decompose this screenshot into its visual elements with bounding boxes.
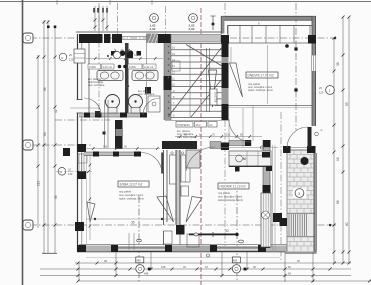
grid bubble top 1 bbox=[150, 14, 159, 23]
room2 dim line bbox=[86, 218, 178, 220]
bottom dim line 1 bbox=[75, 262, 351, 264]
right ticks bbox=[333, 16, 351, 254]
hall label box bbox=[218, 183, 249, 189]
grid square A left bottom bbox=[23, 220, 33, 230]
svg-text:15x17/28: 15x17/28 bbox=[214, 92, 218, 103]
bath dim row bbox=[86, 58, 163, 60]
paper top border bbox=[0, 1, 371, 3]
svg-text:cem. kosuljica / armir: cem. kosuljica / armir bbox=[119, 193, 143, 197]
top wall black segment C bbox=[112, 34, 122, 43]
axis horizontal y=145 bbox=[30, 144, 92, 146]
upper room bottom wall line bbox=[215, 105, 312, 107]
axis ticks x296 bbox=[294, 88, 297, 91]
paper top ticks bbox=[56, 0, 58, 5]
left dim line 4 bbox=[54, 28, 56, 253]
right dim line 2 bbox=[342, 17, 344, 263]
bottom wall inner line bbox=[79, 244, 287, 246]
svg-text:488: 488 bbox=[136, 258, 141, 262]
svg-text:1: 1 bbox=[329, 89, 331, 93]
stair break line 3 bbox=[191, 79, 222, 117]
door arc hall south bbox=[229, 120, 252, 143]
door kite right bbox=[186, 197, 202, 223]
right wall upper bbox=[312, 17, 316, 56]
bottom wall grey seg 3 bbox=[266, 246, 287, 252]
terrace right edge bbox=[313, 153, 315, 253]
left wall bbox=[77, 34, 79, 251]
interior pier bottom bbox=[176, 225, 185, 235]
bottom axis bubble 2 bbox=[232, 265, 240, 273]
terrace brick paving bbox=[287, 150, 315, 253]
hall top wall black bbox=[162, 141, 197, 149]
shower tray bbox=[148, 96, 160, 112]
bathroom label boxes row bbox=[88, 64, 101, 69]
terrace black corner ne bbox=[307, 146, 316, 153]
corridor pier 1 bbox=[93, 152, 99, 157]
bottom wall black jamb 2 bbox=[165, 245, 172, 252]
bottom dim line 3 bbox=[40, 275, 351, 277]
stair text box vertical bbox=[210, 89, 217, 105]
bottom wall outer line bbox=[77, 251, 316, 253]
bath wall pier 2 bbox=[120, 113, 127, 118]
hall west wall lines bbox=[176, 150, 180, 225]
top wall outer line bbox=[76, 31, 221, 33]
axis vertical x=117 bbox=[117, 3, 119, 36]
door leaf living room bbox=[161, 153, 163, 174]
svg-text:100: 100 bbox=[134, 53, 139, 57]
small circle bottom bbox=[207, 254, 210, 257]
svg-text:38: 38 bbox=[336, 62, 340, 66]
bathroom divider wall bbox=[125, 43, 129, 116]
axis horizontal y=225 bbox=[30, 224, 336, 226]
wall stubs to bottom bbox=[163, 231, 165, 245]
svg-text:15.2: 15.2 bbox=[196, 123, 202, 127]
svg-text:cem. kosuljica: cem. kosuljica bbox=[138, 92, 155, 96]
svg-text:moj parket: moj parket bbox=[218, 191, 230, 195]
hall top wall grey seg bbox=[210, 142, 221, 149]
kitchen counter bbox=[229, 151, 271, 167]
pier black upper room right bbox=[308, 35, 316, 44]
svg-text:86: 86 bbox=[43, 132, 47, 136]
stair treads bbox=[171, 44, 222, 118]
toilet left bbox=[106, 95, 120, 109]
svg-text:E: E bbox=[62, 56, 64, 60]
entry door gap bbox=[76, 100, 83, 114]
black square ticks top-left bbox=[47, 26, 50, 29]
right inner wall black top bbox=[263, 140, 271, 147]
door arc living room bbox=[141, 153, 162, 174]
right inner wall black mid bbox=[263, 185, 271, 193]
right wall mid bbox=[312, 71, 316, 126]
svg-text:80: 80 bbox=[345, 222, 349, 226]
left dim line 1 bbox=[37, 55, 39, 228]
axis horizontal y=120 entry bbox=[55, 119, 110, 121]
top wall black segment A bbox=[79, 34, 103, 43]
landing line bbox=[165, 120, 229, 122]
bathroom bottom wall bbox=[79, 113, 147, 117]
svg-text:3,02: 3,02 bbox=[189, 27, 195, 31]
svg-text:SOBA 12.07 m2: SOBA 12.07 m2 bbox=[120, 183, 143, 187]
kitchen sink bbox=[236, 155, 243, 162]
left ticks bbox=[37, 21, 57, 227]
grid bubble top 2 bbox=[189, 14, 198, 23]
boxed 488 label 1 bbox=[136, 257, 144, 263]
svg-text:120: 120 bbox=[68, 172, 73, 176]
top wall black segment B bbox=[104, 34, 111, 43]
stair walking line bbox=[189, 44, 191, 118]
hall dim line bbox=[175, 136, 262, 138]
axis vertical x=99 bbox=[98, 3, 100, 118]
pier black upper room left bbox=[221, 35, 229, 44]
kitchen stove black bbox=[262, 152, 270, 158]
svg-text:488: 488 bbox=[233, 258, 238, 262]
bath wall pier 3 bbox=[140, 113, 147, 118]
svg-text:120: 120 bbox=[69, 58, 74, 62]
axis vertical x=237 bbox=[236, 182, 238, 282]
washbasin counter left bbox=[97, 71, 123, 81]
living room label box bbox=[246, 72, 278, 78]
upper room dim vertical bbox=[267, 45, 269, 104]
bottom dim line 4 bbox=[78, 280, 371, 282]
bottom wall black jamb 1 bbox=[111, 245, 118, 252]
svg-text:110: 110 bbox=[226, 133, 231, 137]
interior wall x165 stair side bbox=[164, 43, 171, 120]
bubble 1 right bbox=[326, 86, 335, 95]
shaft boxes bbox=[170, 155, 177, 184]
top wall window glazing bbox=[122, 36, 146, 38]
svg-text:88: 88 bbox=[43, 87, 47, 91]
bottom window 1 bbox=[118, 246, 165, 251]
svg-text:DNEVNI 17.07 m2: DNEVNI 17.07 m2 bbox=[248, 74, 274, 78]
upper room top wall bbox=[221, 17, 316, 20]
paper left edge bbox=[22, 0, 24, 285]
bottom wall black jamb 4 bbox=[258, 245, 266, 252]
svg-text:KUPA: KUPA bbox=[129, 65, 136, 69]
svg-text:toplot. izolacija / armir: toplot. izolacija / armir bbox=[119, 197, 144, 201]
svg-text:120: 120 bbox=[319, 91, 324, 95]
axis vertical x=225 bbox=[224, 3, 226, 17]
terrace bottom band bbox=[285, 252, 317, 255]
svg-text:168: 168 bbox=[161, 265, 166, 269]
bubble E2 window bbox=[58, 168, 66, 176]
svg-text:moj parket: moj parket bbox=[119, 190, 131, 194]
terrace bubble 3 bbox=[293, 188, 306, 198]
boiler black bbox=[145, 87, 151, 94]
grid square D left top bbox=[23, 33, 33, 43]
right dim line 1 bbox=[333, 38, 335, 263]
svg-text:42: 42 bbox=[54, 109, 58, 113]
left wall window 1 bbox=[74, 49, 85, 63]
bubble E window bbox=[59, 53, 67, 61]
grid square C left mid bbox=[23, 140, 33, 150]
bath wall pier 1 bbox=[84, 113, 90, 118]
svg-text:toplot. izolacija / armir: toplot. izolacija / armir bbox=[248, 88, 273, 92]
terrace exterior stair hatch bbox=[287, 214, 315, 237]
porch column bbox=[63, 148, 70, 156]
svg-text:488: 488 bbox=[144, 271, 149, 275]
closet row upper room bbox=[228, 26, 310, 44]
stair tread numbers bbox=[172, 46, 175, 118]
terrace column dot bbox=[301, 157, 309, 165]
svg-text:35: 35 bbox=[131, 221, 135, 225]
stair arrow triangle bbox=[209, 70, 217, 107]
right inner wall bbox=[263, 140, 270, 186]
bottom wall grey seg 2 bbox=[172, 246, 210, 252]
bottom wall grey seg 1 bbox=[86, 246, 111, 252]
door arc right wall bbox=[287, 127, 308, 148]
top wall black segment D bbox=[158, 34, 171, 43]
axis vertical x=281 bbox=[280, 112, 282, 262]
axis vertical x=296 bbox=[295, 3, 297, 130]
axis vertical x=139 bbox=[138, 196, 140, 282]
svg-text:86: 86 bbox=[336, 200, 340, 204]
upper room inner corner lines bbox=[228, 26, 314, 35]
boxed 488 label 2 bbox=[232, 257, 240, 263]
svg-text:85: 85 bbox=[345, 102, 349, 106]
kitchen wall pier black bbox=[245, 140, 251, 146]
niche rect left bbox=[164, 231, 173, 244]
svg-text:m2: m2 bbox=[209, 123, 213, 127]
bottom window 2 bbox=[217, 246, 258, 251]
svg-text:165: 165 bbox=[103, 145, 108, 149]
svg-text:2,62: 2,62 bbox=[150, 27, 156, 31]
right inner wall black bottom bbox=[263, 240, 271, 248]
svg-text:toplot. izolacija / armir: toplot. izolacija / armir bbox=[218, 198, 243, 202]
left dim line 3 bbox=[47, 20, 49, 253]
entry frame lines bbox=[104, 100, 106, 148]
black dot upper room bbox=[285, 44, 289, 48]
door kite left bbox=[157, 196, 174, 222]
svg-text:4.60 m2: 4.60 m2 bbox=[103, 65, 113, 69]
terrace black corner nw bbox=[283, 146, 291, 153]
bottom dim verticals bbox=[78, 263, 80, 281]
bedroom dim row bbox=[86, 148, 160, 150]
kitchen wall stub bbox=[229, 141, 251, 146]
terrace door lines bbox=[291, 147, 308, 149]
svg-text:cem. kosuljica / armir: cem. kosuljica / armir bbox=[218, 195, 242, 199]
washbasin counter right bbox=[132, 71, 158, 81]
tread end dots bbox=[168, 46, 170, 115]
partition lines bbox=[128, 233, 130, 250]
bedroom wall lines bbox=[163, 150, 165, 225]
terrace pier black bbox=[280, 218, 288, 226]
dim tick x213 bbox=[212, 16, 214, 30]
svg-text:M: M bbox=[243, 157, 246, 161]
section line red bbox=[200, 8, 202, 285]
left wall window 2 bbox=[78, 153, 80, 171]
top wall hatched pier bbox=[146, 34, 158, 44]
kitchen counter left bbox=[186, 150, 200, 168]
svg-text:18: 18 bbox=[336, 157, 340, 161]
svg-text:KUPA: KUPA bbox=[89, 65, 96, 69]
hall dim ticks bbox=[94, 57, 251, 138]
bedroom dim vertical bbox=[89, 156, 91, 240]
terrace threshold lines bbox=[272, 145, 274, 252]
left dim line 2 bbox=[43, 20, 45, 253]
right wall window bbox=[311, 55, 313, 71]
bottom axis bubble 1 bbox=[136, 265, 144, 273]
svg-text:4.40 m2: 4.40 m2 bbox=[144, 65, 154, 69]
door bubble 20/100 bbox=[113, 51, 120, 58]
bottom wall black jamb 3 bbox=[210, 245, 217, 252]
beam lintel black bbox=[189, 234, 238, 236]
svg-text:212: 212 bbox=[37, 180, 41, 186]
bottom ticks bbox=[77, 262, 371, 283]
toilet right bbox=[129, 95, 143, 109]
top wall over stairs bbox=[171, 35, 221, 43]
right dim line 3 bbox=[348, 17, 350, 263]
stair right wall black 2 bbox=[222, 63, 229, 88]
svg-text:E: E bbox=[61, 170, 63, 174]
bottom dim line 2 bbox=[40, 268, 351, 270]
axis end dot right bbox=[334, 37, 337, 40]
niche rect right bbox=[187, 234, 199, 247]
left wall black pier a bbox=[77, 144, 86, 152]
bath door arc right bbox=[143, 98, 160, 115]
bath door arc left bbox=[84, 98, 101, 115]
stair right wall grey bbox=[222, 43, 229, 120]
hall top wall black bbox=[221, 143, 229, 151]
kitchen island bbox=[261, 193, 271, 247]
bedroom1 label box bbox=[118, 181, 149, 187]
door arc hall west bbox=[186, 147, 215, 171]
top dim lines bbox=[94, 6, 96, 31]
corridor wall y152 bbox=[84, 152, 141, 156]
entry door leaf black bbox=[115, 120, 123, 149]
svg-text:STEPENIS: STEPENIS bbox=[177, 123, 190, 127]
axis vertical x=165 bbox=[165, 6, 167, 34]
interior wall black chimney bbox=[164, 76, 172, 90]
upper room left wall bbox=[221, 17, 224, 34]
corridor pier 3 bbox=[134, 152, 141, 157]
svg-text:88: 88 bbox=[54, 195, 58, 199]
stair right wall black 3 bbox=[222, 104, 229, 120]
stair break line 1 bbox=[168, 47, 222, 117]
bottom wall black corner bbox=[77, 245, 86, 252]
corridor pier 2 bbox=[113, 152, 119, 157]
axis horizontal y=38 bbox=[30, 37, 336, 39]
svg-text:30: 30 bbox=[225, 229, 229, 233]
stair right wall black 1 bbox=[222, 35, 229, 57]
door leaf right wall bbox=[308, 127, 312, 148]
stair break line 2 bbox=[186, 45, 222, 67]
taps black dots bbox=[111, 51, 116, 56]
svg-text:HODNIK 11.13 m2: HODNIK 11.13 m2 bbox=[220, 185, 247, 189]
left wall black pier c bbox=[75, 222, 84, 231]
bottom dim line 0 bbox=[86, 257, 280, 259]
svg-text:cem. kosuljica: cem. kosuljica bbox=[88, 83, 105, 87]
wardrobe triangle left bbox=[87, 202, 95, 222]
landing label row bbox=[176, 122, 193, 128]
left wall black pier b bbox=[77, 171, 86, 179]
stair handrail bbox=[206, 48, 208, 112]
door wedge upper room bbox=[230, 63, 243, 97]
